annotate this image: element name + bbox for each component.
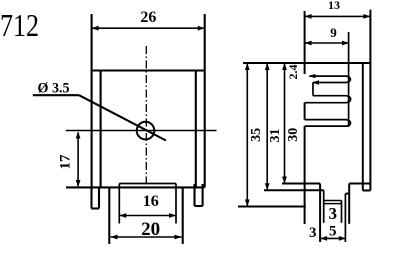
svg-text:13: 13 xyxy=(328,0,340,12)
svg-text:712: 712 xyxy=(0,7,39,43)
svg-text:16: 16 xyxy=(143,193,159,210)
svg-text:2.4: 2.4 xyxy=(286,65,300,80)
svg-text:17: 17 xyxy=(58,154,74,170)
svg-text:30: 30 xyxy=(286,128,301,142)
svg-text:31: 31 xyxy=(268,129,283,143)
svg-text:3: 3 xyxy=(309,225,317,241)
svg-text:3: 3 xyxy=(328,204,337,223)
svg-text:5: 5 xyxy=(329,224,337,240)
svg-text:26: 26 xyxy=(140,9,156,26)
svg-text:35: 35 xyxy=(249,128,264,142)
svg-text:9: 9 xyxy=(330,25,337,40)
svg-text:20: 20 xyxy=(141,219,160,240)
svg-text:Ø 3.5: Ø 3.5 xyxy=(38,81,70,97)
